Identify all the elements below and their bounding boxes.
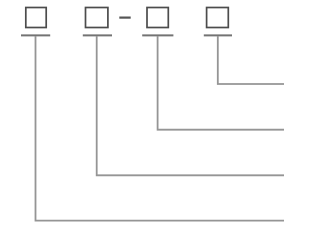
underline under box 1 — [21, 34, 50, 36]
underline under box 4 — [204, 34, 232, 36]
leader line from box 1 (down then right) — [36, 36, 285, 220]
leader line from box 3 (down then right) — [158, 36, 284, 129]
leader line from box 4 (down then right) — [218, 36, 284, 84]
box 3 (model code field 3) — [147, 8, 168, 28]
box 1 (model code field 1) — [26, 8, 46, 28]
underline under box 3 — [142, 34, 173, 36]
dash separator between box 2 and box 3 — [119, 17, 130, 19]
box 4 (model code field 4) — [207, 8, 229, 28]
underline under box 2 — [83, 34, 112, 36]
leader line from box 2 (down then right) — [97, 36, 284, 175]
box 2 (model code field 2) — [86, 8, 108, 28]
